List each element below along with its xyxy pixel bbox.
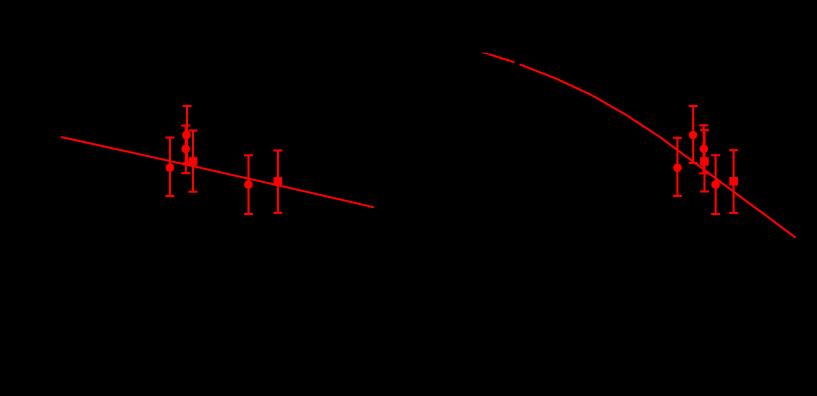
- right square marker 2: [729, 177, 738, 186]
- left square marker 2: [274, 177, 283, 186]
- right error bar 3 (x=704 upper): [699, 125, 708, 173]
- right circle marker 1: [673, 163, 682, 172]
- right error bar 1 (x=677): [673, 138, 682, 196]
- left error bar 3 (x=186): [181, 126, 190, 174]
- right panel fit curve segment A: [489, 54, 515, 62]
- right circle marker 3: [700, 145, 709, 154]
- right error bar 6 (x=733.6): [729, 150, 738, 213]
- left circle marker 2: [182, 131, 191, 140]
- right error bar 4 (x=704.5 lower): [700, 130, 709, 191]
- right circle marker 4: [711, 180, 720, 189]
- right circle marker 2: [689, 131, 698, 140]
- left square marker 1: [189, 157, 198, 166]
- left circle marker 1: [166, 163, 175, 172]
- right error bar 2 (x=693): [689, 106, 698, 163]
- left error bar 5 (x=248.5): [244, 155, 253, 214]
- right square marker 1: [700, 157, 709, 166]
- left circle marker 3: [181, 145, 190, 154]
- left error bar 6 (x=278): [273, 151, 282, 213]
- right error bar 5 (x=715.6): [711, 155, 720, 214]
- right panel fit curve main segment: [520, 64, 796, 237]
- left error bar 4 (x=193): [189, 131, 198, 192]
- left error bar 2 (x=187): [183, 106, 192, 163]
- left circle marker 4: [244, 180, 253, 189]
- left panel fit curve: [61, 137, 374, 207]
- right panel fit curve lead-in segment: [482, 53, 490, 55]
- left error bar 1 (x=170): [165, 138, 174, 197]
